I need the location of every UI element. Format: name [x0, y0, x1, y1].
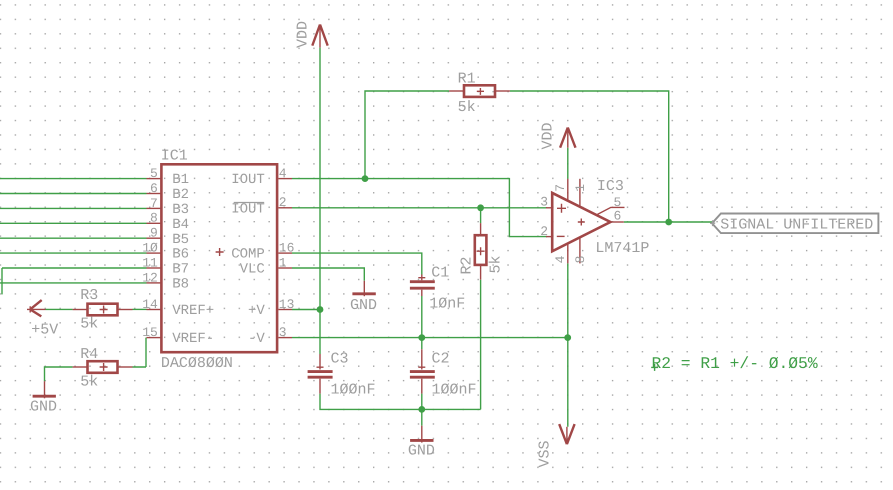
svg-text:11: 11: [142, 255, 158, 270]
IC1 pin 10: [147, 252, 162, 254]
svg-text:GND: GND: [408, 443, 435, 460]
IC1 DAC0800N body: [161, 164, 277, 352]
C3 pin top: [317, 354, 324, 370]
IC1 pin 9: [147, 237, 162, 239]
IC1 pin 11: [147, 267, 162, 269]
IC3 pin 7 stub: [567, 179, 569, 202]
svg-text:COMP: COMP: [231, 247, 265, 263]
wire C1 bottom to -V net: [421, 296, 423, 338]
R3 plus mark: [100, 306, 108, 314]
svg-text:5k: 5k: [458, 99, 476, 116]
svg-text:8: 8: [573, 256, 588, 264]
svg-text:1ØØnF: 1ØØnF: [331, 381, 376, 398]
IC1 pin 5: [147, 178, 162, 180]
junction IOUT/R1: [362, 175, 369, 182]
op-amp IC3: [552, 193, 610, 251]
svg-text:3: 3: [540, 194, 548, 209]
ground GND C2: [421, 426, 423, 443]
svg-text:GND: GND: [350, 297, 377, 314]
svg-text:VREF-: VREF-: [172, 331, 214, 347]
svg-text:B2: B2: [172, 187, 189, 203]
wire VDD rail down to +V: [319, 48, 321, 310]
IC1 pin 16: [279, 252, 293, 254]
wire R3 to pin14: [133, 308, 147, 310]
resistor R2: [475, 235, 487, 265]
svg-text:2: 2: [540, 224, 548, 239]
svg-text:C2: C2: [432, 351, 450, 368]
IC3 minus input mark: [557, 235, 565, 237]
R3 pin right: [118, 309, 133, 311]
svg-text:C1: C1: [431, 264, 449, 281]
supply VSS: [559, 424, 574, 444]
svg-text:DACØ8ØØN: DACØ8ØØN: [161, 355, 233, 372]
wire VDD2 to opamp pin7: [567, 148, 569, 179]
R3 pin left: [73, 309, 88, 311]
label flag SIGNAL UNFILTERED: [712, 214, 878, 234]
svg-text:4: 4: [553, 255, 568, 263]
wire gnd rail up to R2 bottom: [480, 280, 482, 410]
svg-text:VDD: VDD: [539, 122, 556, 149]
svg-text:3: 3: [279, 325, 287, 340]
IC1 pin 7: [147, 207, 162, 209]
supply +5V: [30, 300, 42, 316]
resistor R3: [88, 304, 118, 316]
svg-text:13: 13: [279, 297, 295, 312]
svg-text:R1: R1: [458, 71, 476, 88]
IC3 pin 8 stub: [579, 237, 581, 263]
svg-text:+V: +V: [248, 303, 265, 319]
IC1 pin 1: [279, 267, 293, 269]
svg-text:B8: B8: [172, 277, 189, 293]
IC3 pin 4 stub: [567, 243, 569, 263]
svg-text:LM741P: LM741P: [595, 240, 649, 257]
wire C3 bottom to gnd rail: [320, 394, 481, 410]
wire net B3: [0, 207, 147, 209]
wire pin1 VLC to GND: [292, 268, 364, 281]
svg-text:6: 6: [614, 209, 622, 224]
wire R4 right to pin15: [133, 338, 147, 367]
svg-text:B7: B7: [172, 262, 189, 278]
resistor R4: [88, 361, 118, 373]
VDD top pin: [319, 26, 321, 48]
svg-text:B1: B1: [172, 172, 189, 188]
svg-text:IC1: IC1: [161, 147, 188, 164]
IC1 pin 4: [279, 178, 293, 180]
wire R4 left to GND: [45, 367, 73, 381]
wire C2 top: [421, 338, 423, 350]
wire opamp pin4 to VSS: [567, 263, 569, 426]
wire C2 bottom: [421, 394, 423, 410]
wire C2 junction to GND: [421, 409, 423, 425]
wire net B5: [0, 237, 147, 239]
svg-text:R2: R2: [458, 256, 475, 274]
svg-text:C3: C3: [331, 351, 349, 368]
wire +V junction to C3: [319, 310, 321, 355]
flag tip tick: [710, 220, 715, 226]
wire stub left edge: [1, 268, 3, 294]
IC3 pin 2 stub: [546, 236, 552, 238]
junction -V/VSS: [564, 334, 571, 341]
junction C2/GND rail: [418, 406, 425, 413]
IC1 pin 14: [147, 309, 162, 311]
svg-text:7: 7: [553, 184, 568, 192]
svg-text:R3: R3: [80, 287, 98, 304]
wire R1 right to output: [510, 91, 669, 222]
junction output/R1: [665, 219, 672, 226]
GND VLC bar: [352, 292, 375, 295]
svg-text:5k: 5k: [487, 255, 504, 273]
R2 pin top: [480, 223, 482, 235]
IC1 pin 15: [147, 337, 162, 339]
svg-text:B5: B5: [172, 232, 189, 248]
svg-text:1ØnF: 1ØnF: [429, 296, 465, 313]
wire +5V to R3: [46, 308, 73, 310]
R1 pin right: [495, 90, 510, 92]
wire net B6: [0, 252, 147, 254]
wire pin4 IOUT to opamp in-: [292, 179, 547, 237]
svg-text:4: 4: [279, 166, 287, 181]
svg-text:B3: B3: [172, 202, 189, 218]
ground GND VLC: [363, 281, 365, 296]
wire pin2 IOUT- to opamp in+: [292, 207, 547, 209]
C2 pin top: [418, 349, 425, 369]
VDD opamp pin: [567, 129, 569, 148]
capacitor C2: [410, 372, 435, 378]
wire net B8: [0, 282, 147, 284]
wire pin16 COMP to C1: [292, 253, 422, 274]
IC3 pin 3 stub: [546, 207, 552, 209]
svg-text:6: 6: [150, 181, 158, 196]
svg-text:8: 8: [150, 211, 158, 226]
svg-text:1ØØnF: 1ØØnF: [432, 381, 477, 398]
svg-text:IC3: IC3: [597, 178, 624, 195]
note origin cross: [651, 364, 658, 371]
wire net B7: [2, 267, 147, 269]
wire net B2: [0, 193, 147, 195]
svg-text:IOUT: IOUT: [231, 201, 265, 217]
GND C2 bar: [410, 439, 433, 442]
junction +V/VDD/C3: [317, 306, 324, 313]
IC1 pin 2: [279, 207, 293, 209]
svg-text:B6: B6: [172, 247, 189, 263]
IC1 IOUT overline: [234, 202, 265, 204]
C1 pin bottom: [421, 290, 423, 296]
svg-text:R4: R4: [80, 346, 98, 363]
svg-text:14: 14: [142, 297, 158, 312]
capacitor C3: [308, 372, 333, 378]
resistor R1: [464, 85, 495, 97]
IC1 pin 3: [279, 337, 293, 339]
R4 pin right: [118, 366, 133, 368]
C1 pin top: [418, 275, 425, 281]
junction -V/C1/C2: [418, 334, 425, 341]
svg-text:B4: B4: [172, 217, 189, 233]
IC1 pin 13: [279, 309, 293, 311]
svg-text:SIGNAL UNFILTERED: SIGNAL UNFILTERED: [720, 216, 873, 233]
svg-text:12: 12: [142, 270, 158, 285]
IC1 pin 6: [147, 193, 162, 195]
IC1 pin 8: [147, 222, 162, 224]
wire net B4: [0, 222, 147, 224]
svg-text:9: 9: [150, 226, 158, 241]
supply VDD opamp: [560, 128, 575, 148]
R1 plus mark: [477, 88, 484, 95]
svg-text:5: 5: [614, 195, 622, 210]
IC3 origin cross: [578, 219, 585, 226]
capacitor C1: [410, 282, 435, 289]
IC1 plus mark: [216, 248, 224, 256]
svg-text:+5V: +5V: [31, 322, 58, 339]
svg-text:VDD: VDD: [294, 21, 311, 48]
svg-text:1: 1: [279, 255, 287, 270]
wire -V net row: [292, 337, 568, 339]
svg-text:IOUT: IOUT: [231, 172, 265, 188]
R1 pin left: [449, 90, 464, 92]
R4 pin left: [73, 366, 88, 368]
supply VDD top: [312, 25, 327, 46]
IC3 pin 5 stub: [597, 207, 625, 214]
svg-text:2: 2: [279, 195, 287, 210]
svg-text:-V: -V: [248, 331, 265, 347]
svg-text:1Ø: 1Ø: [142, 241, 158, 256]
svg-text:5k: 5k: [80, 374, 98, 391]
IC3 plus input mark: [557, 204, 566, 213]
C2 pin bottom: [421, 379, 423, 394]
svg-text:GND: GND: [30, 399, 57, 416]
R2 pin bottom: [480, 265, 482, 280]
svg-text:7: 7: [150, 196, 158, 211]
svg-text:R2 = R1 +/- Ø.Ø5%: R2 = R1 +/- Ø.Ø5%: [652, 354, 818, 373]
wire net B1: [0, 178, 147, 180]
svg-text:15: 15: [142, 325, 158, 340]
IC3 pin 1 stub: [579, 179, 581, 207]
+5V pin: [27, 306, 46, 312]
R4 plus mark: [100, 363, 108, 371]
svg-text:VREF+: VREF+: [172, 303, 214, 319]
wire pin13 +V: [292, 309, 320, 311]
svg-text:VLC: VLC: [240, 262, 265, 278]
C3 pin bottom: [319, 379, 321, 394]
ground GND R4: [44, 381, 46, 398]
GND R4 bar: [33, 395, 56, 398]
svg-text:1: 1: [573, 184, 588, 192]
junction IOUT-/R2: [477, 204, 484, 211]
wire opamp output to label: [624, 221, 712, 223]
svg-text:16: 16: [279, 241, 295, 256]
svg-text:5: 5: [150, 166, 158, 181]
VSS pin: [566, 427, 568, 443]
IC1 pin 12: [147, 282, 162, 284]
wire R2 top to IOUT- net: [480, 208, 482, 223]
svg-text:5k: 5k: [80, 316, 98, 333]
R2 plus mark: [477, 247, 485, 255]
wire R1 left branch: [365, 91, 449, 179]
IC3 pin 6 output: [610, 221, 623, 223]
svg-text:VSS: VSS: [537, 440, 554, 467]
